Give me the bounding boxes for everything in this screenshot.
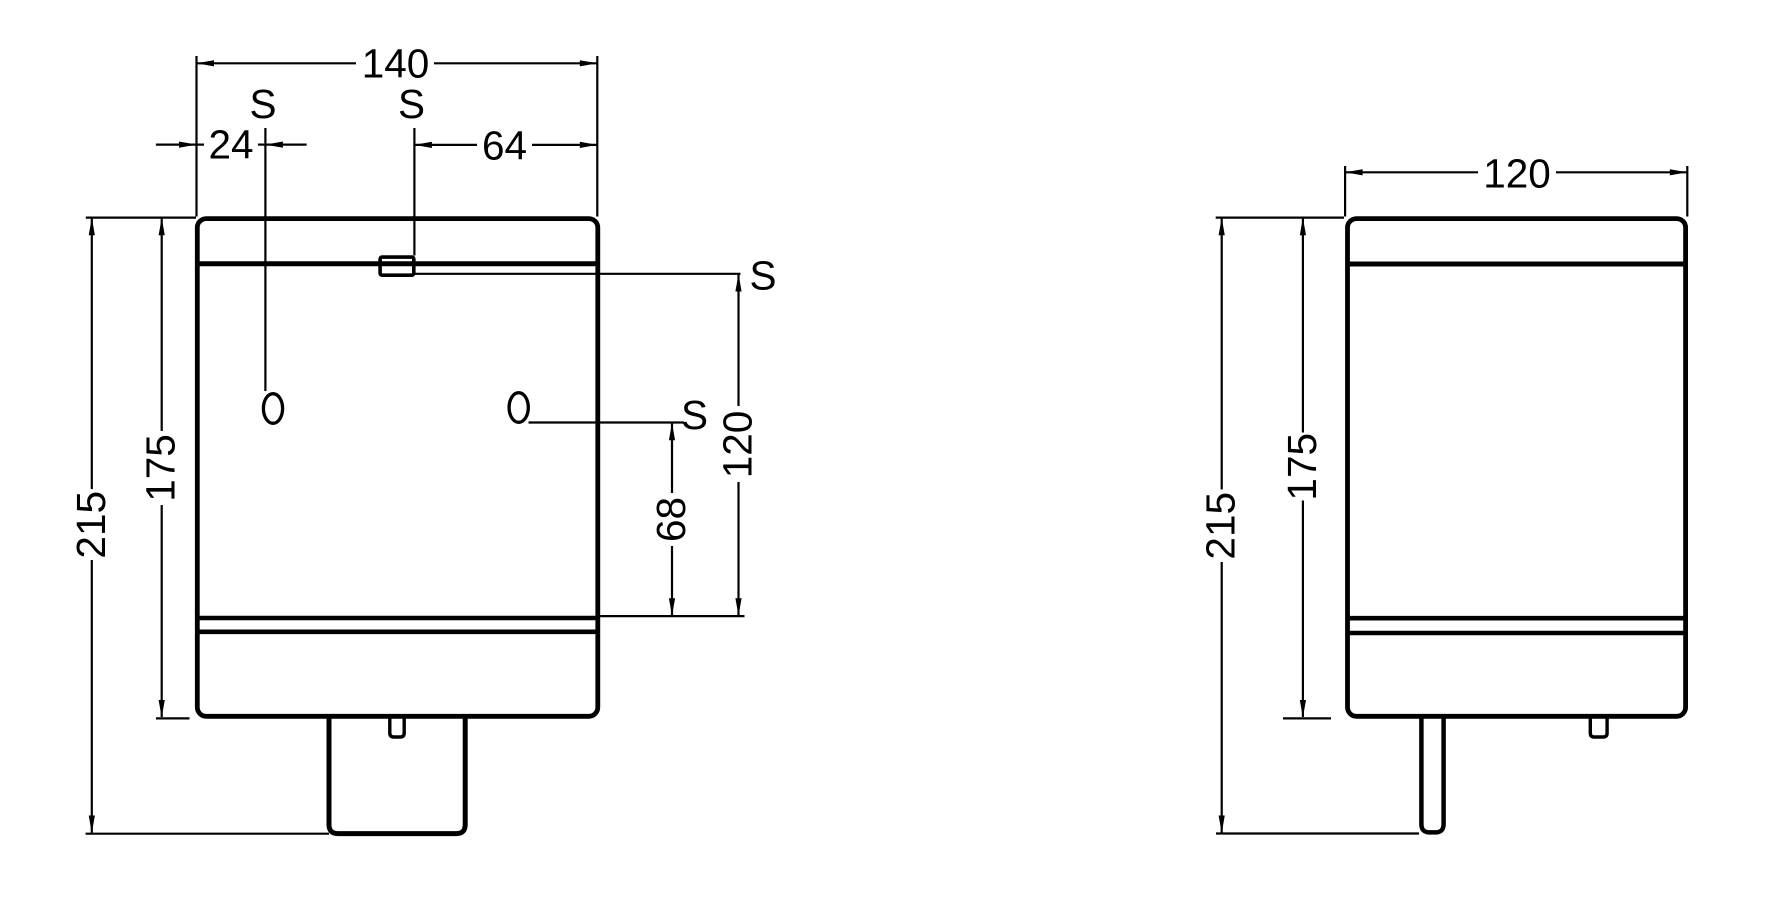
extension tick for 175 bottom (side): [1283, 717, 1331, 719]
extension line top left of body: [86, 217, 196, 219]
svg-text:215: 215: [68, 491, 114, 559]
front view: pump spout block: [329, 716, 465, 834]
extension line for 215 bottom (side): [1216, 832, 1419, 834]
leader line clip to S right: [414, 273, 741, 275]
extension line from S to left screw slot: [264, 128, 266, 391]
front view: lower seam line lower: [197, 629, 598, 634]
svg-text:120: 120: [715, 411, 761, 479]
svg-text:24: 24: [208, 122, 253, 168]
svg-text:64: 64: [482, 123, 527, 169]
svg-text:120: 120: [1483, 151, 1551, 197]
side view: dip tube: [1421, 716, 1443, 833]
dimension 175 line (front): [161, 218, 163, 431]
extension tick for 175 bottom (front): [156, 717, 190, 719]
svg-text:S: S: [249, 81, 276, 127]
front view: lower seam line upper: [197, 616, 598, 621]
extension line for 215 bottom (front): [86, 833, 329, 835]
dimension 175 line (side): [1302, 218, 1304, 433]
front view: top cover seam line: [197, 261, 598, 266]
dimension 24 line and outside arrows: [156, 144, 197, 146]
leader line screw slot to S: [529, 421, 685, 423]
extension line left for 120 (side): [1344, 166, 1346, 217]
svg-text:140: 140: [362, 41, 430, 87]
front view: key clip window: [380, 257, 414, 275]
extension line left for 140: [195, 56, 197, 217]
extension line bottom right for 68 and 120: [600, 615, 745, 617]
svg-text:S: S: [398, 81, 425, 127]
extension line right for 120 (side): [1686, 166, 1688, 217]
dimension 120 line: [737, 274, 739, 406]
side view: top cover seam line: [1348, 262, 1686, 267]
svg-text:215: 215: [1198, 492, 1244, 560]
side view: lower seam line upper: [1348, 616, 1686, 621]
front view: screw slot right (0): [509, 393, 528, 423]
svg-text:S: S: [749, 253, 776, 299]
side view: rear nub: [1590, 716, 1607, 737]
dimension 140 line: [197, 62, 357, 64]
svg-text:S: S: [681, 392, 708, 438]
extension line from S to clip: [413, 128, 415, 256]
dimension 215 line (side): [1221, 218, 1223, 490]
extension line top left of side body: [1216, 217, 1344, 219]
side view: lower seam line lower: [1348, 631, 1686, 636]
dimension 120 line (side): [1345, 171, 1478, 173]
dimension 68 line: [671, 423, 673, 493]
dimension 64 line: [414, 144, 477, 146]
svg-text:175: 175: [1279, 433, 1325, 501]
front view: screw slot left (0): [263, 394, 282, 424]
front view: pump nozzle notch: [390, 716, 404, 737]
svg-text:175: 175: [138, 434, 184, 502]
front view: dispenser body outline: [197, 219, 598, 717]
side view: dispenser body outline: [1348, 219, 1686, 717]
extension line right for 140: [596, 56, 598, 217]
dimension 215 line (front): [91, 218, 93, 489]
svg-text:68: 68: [648, 497, 694, 542]
